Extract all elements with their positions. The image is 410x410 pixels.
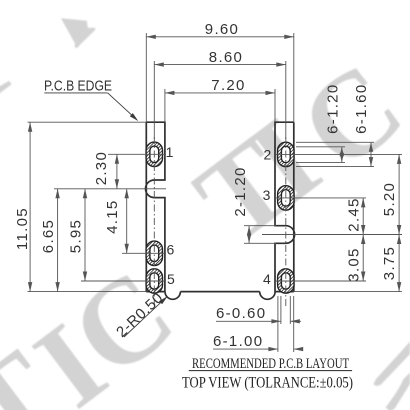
svg-text:3.05: 3.05 bbox=[346, 247, 363, 281]
svg-text:8.60: 8.60 bbox=[209, 49, 243, 66]
svg-text:4: 4 bbox=[263, 271, 272, 287]
centerline left pad column bbox=[153, 137, 155, 307]
dimension 6-1.60 bbox=[296, 84, 374, 167]
extension line bottom edge left bbox=[28, 291, 147, 293]
svg-text:6: 6 bbox=[166, 242, 175, 258]
dimension 4.15 bbox=[104, 189, 129, 254]
svg-text:4.15: 4.15 bbox=[104, 199, 121, 233]
extension line pad2 center bbox=[276, 153, 402, 155]
dimension 9.60 bbox=[146, 21, 293, 122]
dimension 5.95 bbox=[68, 189, 88, 281]
svg-text:6.65: 6.65 bbox=[40, 219, 57, 253]
svg-text:5.20: 5.20 bbox=[381, 182, 398, 216]
extension line pad3 center bbox=[276, 197, 366, 199]
dimension 3.05 bbox=[346, 235, 366, 282]
svg-text:11.05: 11.05 bbox=[14, 207, 31, 250]
title RECOMMENDED P.C.B LAYOUT bbox=[189, 356, 352, 372]
svg-text:1: 1 bbox=[166, 144, 175, 160]
extension line pad5 center bbox=[81, 280, 166, 282]
svg-text:6-1.20: 6-1.20 bbox=[325, 84, 342, 134]
dimension 2.45 bbox=[346, 197, 366, 234]
svg-text:6-0.60: 6-0.60 bbox=[216, 305, 266, 322]
svg-text:3.75: 3.75 bbox=[381, 246, 398, 280]
svg-text:T: T bbox=[0, 0, 42, 142]
dimension 8.60 bbox=[154, 49, 285, 139]
svg-text:2: 2 bbox=[263, 147, 272, 163]
pad 4 bbox=[278, 269, 294, 293]
pad 3 bbox=[278, 186, 294, 210]
dimension 6.65 bbox=[40, 189, 60, 292]
extension line left notch center bbox=[54, 188, 166, 190]
dimension 2.30 bbox=[93, 151, 119, 189]
svg-text:TOP VIEW (TOLRANCE:±0.05): TOP VIEW (TOLRANCE:±0.05) bbox=[182, 375, 353, 392]
pad 2 bbox=[278, 142, 294, 166]
svg-text:3: 3 bbox=[263, 187, 272, 203]
svg-text:2-1.20: 2-1.20 bbox=[232, 166, 249, 216]
extension line pad6 center bbox=[122, 252, 166, 254]
dimension 11.05 bbox=[14, 122, 32, 291]
dimension 7.20 bbox=[165, 77, 275, 122]
svg-text:P.C.B EDGE: P.C.B EDGE bbox=[44, 79, 112, 95]
svg-text:2.45: 2.45 bbox=[346, 197, 363, 231]
svg-text:RECOMMENDED P.C.B LAYOUT: RECOMMENDED P.C.B LAYOUT bbox=[192, 356, 349, 372]
extension line pad1 center bbox=[108, 153, 166, 155]
svg-text:5: 5 bbox=[167, 271, 176, 287]
svg-text:6-1.00: 6-1.00 bbox=[213, 333, 263, 350]
dimension 6-1.20 bbox=[296, 84, 345, 163]
pad 1 bbox=[146, 142, 162, 166]
extension line bottom edge right bbox=[294, 291, 402, 293]
P.C.B edge outline bbox=[146, 122, 295, 299]
dimension 3.75 bbox=[381, 235, 401, 292]
extension line top edge left bbox=[28, 121, 147, 123]
dimension 2-1.20 bbox=[232, 166, 276, 243]
svg-text:5.95: 5.95 bbox=[68, 219, 85, 253]
pad 5 bbox=[146, 269, 162, 293]
leader 2-R0.50 bbox=[113, 289, 167, 341]
dimension 6-0.60 bbox=[216, 296, 301, 324]
extension line pad4 center bbox=[276, 280, 366, 282]
centerline right pad column bbox=[285, 137, 287, 307]
pad 6 bbox=[146, 241, 162, 265]
dimension 5.20 bbox=[381, 154, 401, 234]
extension line right notch center bbox=[262, 234, 402, 236]
svg-text:2.30: 2.30 bbox=[93, 151, 110, 185]
svg-text:7.20: 7.20 bbox=[211, 77, 245, 94]
label P.C.B EDGE with leader bbox=[44, 79, 138, 122]
svg-text:9.60: 9.60 bbox=[205, 21, 239, 38]
svg-text:6-1.60: 6-1.60 bbox=[353, 84, 370, 134]
dimension 6-1.00 bbox=[213, 296, 303, 352]
